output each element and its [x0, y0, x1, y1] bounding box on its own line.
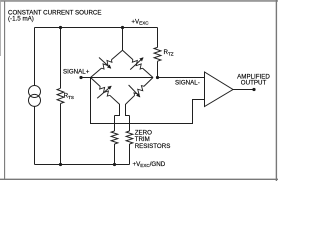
wire amplifier output: [233, 89, 254, 91]
svg-text:SIGNAL+: SIGNAL+: [63, 68, 90, 75]
node SIGNAL+: [79, 76, 82, 79]
svg-text:RESISTORS: RESISTORS: [135, 143, 171, 150]
svg-text:+VEXC/GND: +VEXC/GND: [133, 161, 166, 168]
node amplified output: [252, 88, 255, 91]
svg-text:SIGNAL-: SIGNAL-: [175, 80, 200, 87]
bridge arm lower-right gauge: [144, 78, 153, 87]
wire bridge top branch: [122, 28, 124, 51]
wire right trim resistor bottom lead: [129, 144, 131, 165]
op-amp A1: [205, 72, 234, 107]
wire bridge left bottom neck: [115, 104, 120, 116]
wire left trim resistor bottom lead: [114, 144, 116, 165]
wire current source lower lead: [34, 106, 36, 164]
wire bridge center tie: [91, 77, 154, 79]
junction bottom rail / left trim resistor: [113, 163, 116, 166]
wire SIGNAL+ stub: [81, 77, 91, 79]
wire RTZ top lead: [157, 28, 159, 48]
arrow upper-left gauge: [99, 58, 111, 69]
junction top rail / bridge +VEXC: [121, 26, 124, 29]
wire SIGNAL- to amplifier: [158, 77, 205, 79]
arrow lower-right gauge: [129, 85, 140, 97]
bridge arm upper-right gauge: [123, 50, 133, 59]
bridge arm lower-left gauge: [91, 78, 101, 87]
svg-text:+VEXC: +VEXC: [131, 18, 149, 25]
wire bridge right bottom neck: [126, 104, 130, 116]
wire top rail +VEXC: [35, 27, 158, 29]
resistor RTZ: [154, 47, 161, 61]
node SIGNAL- / RTZ: [156, 76, 159, 79]
wire right trim resistor top lead: [129, 116, 131, 132]
wire RTS top lead: [60, 28, 62, 89]
wire RTZ bottom lead: [157, 61, 159, 77]
current source I1: [29, 86, 41, 98]
wire bottom rail VEXC/GND: [35, 164, 130, 166]
junction top rail / RTS: [59, 26, 62, 29]
svg-text:(-1.5 mA): (-1.5 mA): [8, 16, 34, 23]
wire RTS bottom lead: [60, 104, 62, 165]
resistor zero trim right: [126, 131, 133, 144]
arrow upper-right gauge: [130, 58, 143, 70]
resistor zero trim left: [111, 131, 118, 144]
wire current source upper lead: [34, 28, 36, 86]
arrow lower-left gauge: [97, 86, 111, 98]
wire left trim resistor top lead: [114, 116, 116, 132]
resistor RTS: [57, 88, 64, 103]
bridge arm upper-left gauge: [91, 68, 102, 77]
wire SIGNAL+ route to amplifier lower input: [91, 78, 205, 124]
junction bottom rail / RTS: [59, 163, 62, 166]
svg-text:OUTPUT: OUTPUT: [241, 79, 267, 86]
